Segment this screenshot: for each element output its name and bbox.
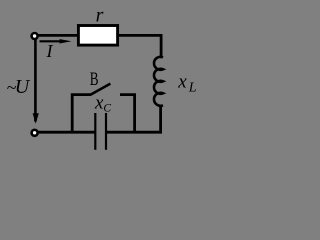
wire top: node to resistor — [35, 34, 78, 37]
node bottom (terminal) — [32, 130, 38, 136]
node top (terminal) — [32, 33, 38, 39]
svg-text:L: L — [188, 81, 197, 96]
switch B: left stub and contact — [72, 95, 91, 133]
inductor coil L (4 humps) — [154, 57, 163, 106]
switch B: right contact and stub — [120, 95, 135, 133]
svg-text:r: r — [96, 5, 104, 27]
arrow down (current into node) — [33, 113, 39, 124]
svg-text:C: C — [103, 102, 111, 114]
capacitor left plate — [94, 113, 96, 150]
current arrow I — [40, 40, 64, 42]
wire: resistor to top-right corner and down to coil — [117, 35, 161, 58]
svg-text:I: I — [46, 41, 54, 61]
svg-text:x: x — [177, 71, 187, 92]
wire: coil bottom to bottom-right corner and left to capacitor — [106, 105, 160, 133]
wire: capacitor to bottom node — [35, 131, 95, 134]
svg-text:В: В — [90, 69, 99, 90]
svg-text:U: U — [15, 76, 31, 98]
capacitor right plate — [105, 113, 107, 150]
wire left: top node down — [34, 40, 37, 122]
resistor r body — [78, 26, 117, 46]
switch B: blade — [90, 84, 110, 95]
